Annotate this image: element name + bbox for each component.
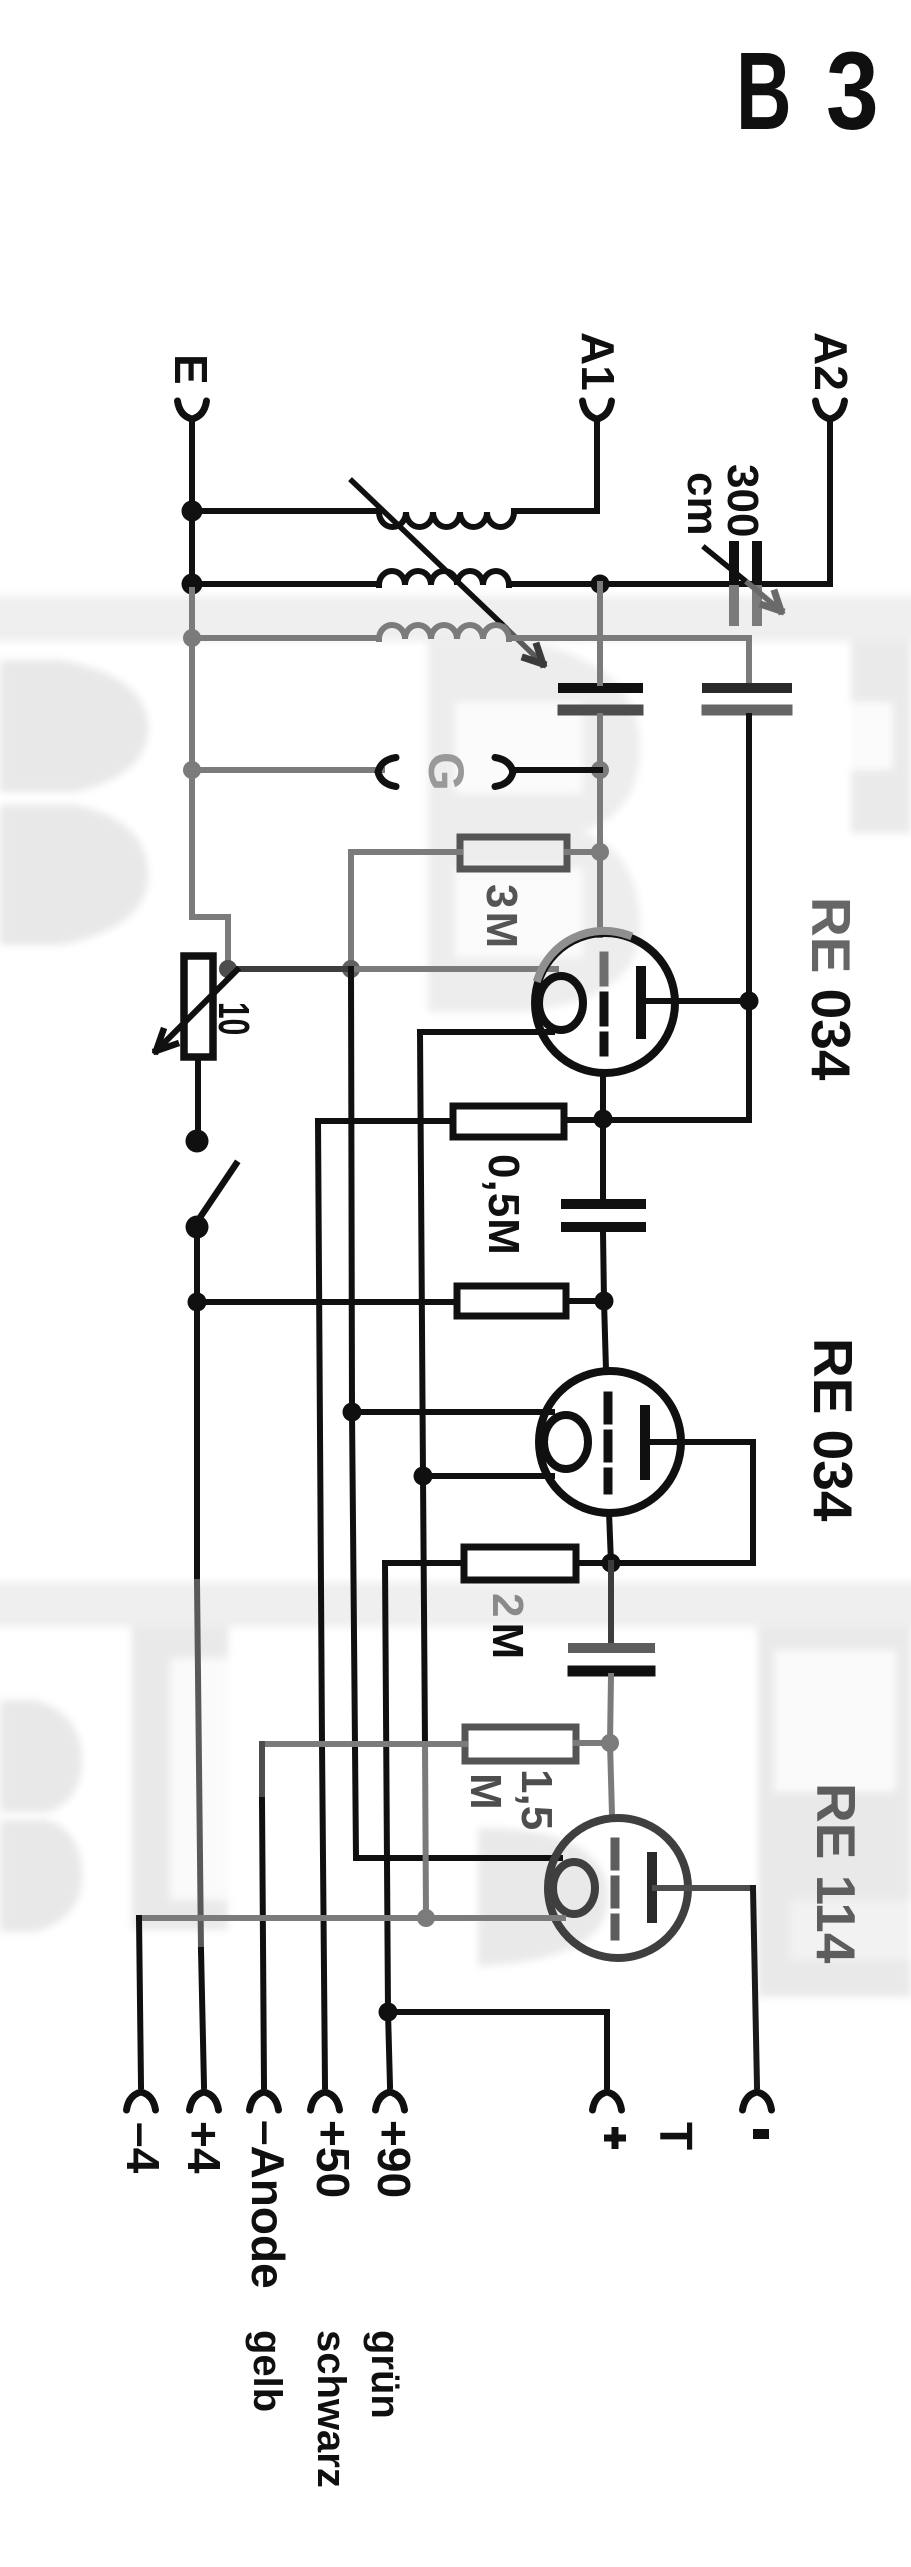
svg-text:A1: A1 (572, 332, 624, 391)
wire rheostat row dark segment (228, 966, 351, 972)
node E-Grow junction (183, 761, 201, 779)
svg-text:2M: 2M (483, 1593, 532, 1664)
wire row1 left segment (192, 508, 379, 514)
node +90 T junction (379, 2003, 398, 2022)
wire rheostat row gray segment to tube1 filament top (351, 966, 556, 972)
svg-text:grün: grün (363, 2330, 407, 2419)
svg-text:3: 3 (826, 29, 879, 152)
wire grid-leak row (197, 1299, 457, 1305)
svg-text:E: E (165, 354, 217, 385)
coil L1 (379, 512, 514, 527)
grid capacitor Cg top plate (563, 683, 638, 693)
watermark band 2 strip (0, 1582, 911, 1627)
wire V1 anode lead (646, 998, 749, 1004)
coil L3 (379, 625, 509, 639)
node 1,5M right junction (601, 1734, 619, 1752)
wire 1,5M right lead (576, 1740, 610, 1746)
svg-text:RE 034: RE 034 (800, 897, 862, 1081)
node grid-leak resistor right junction (595, 1292, 614, 1311)
wire V2 filament bottom lead (423, 1473, 552, 1479)
wire G row left (192, 767, 382, 773)
tube V2 grid dashes (604, 1396, 613, 1490)
terminal T minus (743, 2092, 772, 2110)
watermark band 1 strip (0, 596, 911, 641)
wire grid rail: cap to G row to 3M row (597, 716, 603, 935)
rheostat wiper arrow (156, 970, 237, 1051)
rheostat 10 body (184, 956, 213, 1057)
wire +50 rail down (318, 1121, 325, 2086)
wire 0,5M left lead to +50 rail (318, 1118, 453, 1124)
coil L2 (379, 571, 509, 585)
tube V2 envelope (539, 1371, 681, 1513)
wire V2 grid exit (609, 1512, 611, 1563)
wire row2 right segment (509, 581, 830, 587)
resistor grid-leak V2 body (457, 1286, 566, 1316)
node 3M junction (591, 843, 609, 861)
svg-text:T: T (650, 2122, 702, 2150)
wire V3 anode lead to T minus terminal (655, 1885, 753, 1891)
feedback capacitor Cr bottom plate (707, 705, 787, 716)
node E-row2 junction (182, 574, 203, 595)
svg-text:M: M (461, 1773, 510, 1810)
variable capacitor C 300cm plate 2 (752, 546, 762, 590)
terminal E (178, 401, 207, 419)
terminal +4 (190, 2092, 219, 2110)
coupling capacitor C2 bottom plate (566, 1222, 641, 1232)
svg-text:gelb: gelb (245, 2330, 289, 2412)
tube V1 anode bar (636, 971, 646, 1034)
wire T plus row (388, 2012, 607, 2086)
watermark band 2 letter fragment left (0, 1700, 82, 1812)
wire E rail gray middle (192, 590, 228, 962)
coupling arrow across coils (352, 481, 505, 627)
wire V3 grid entry (610, 1743, 612, 1815)
node V2 filament top junction (343, 1403, 362, 1422)
wire row1 right segment (514, 508, 597, 514)
wire -4 rail down (139, 1918, 141, 2086)
tube V2 anode bar (640, 1410, 650, 1475)
wire V1 grid exit to 0,5M junction (600, 1073, 606, 1200)
node V2 filament bottom junction (414, 1467, 433, 1486)
capacitor C3 bottom plate (573, 1666, 650, 1677)
tube V1 envelope (535, 933, 675, 1073)
wire C2 to grid-leak row (603, 1232, 604, 1301)
grid capacitor Cg bottom plate (563, 705, 638, 716)
wire row3 gray left segment (192, 635, 379, 641)
tube V1 envelope gray arc (538, 931, 628, 978)
wire -Anode rail down (259, 1744, 265, 1800)
terminal T plus (593, 2092, 622, 2110)
wire 3M right lead (567, 849, 600, 855)
wire 1,5M left lead to -Anode rail (262, 1741, 465, 1747)
wire A2 lead down to row2 (827, 422, 833, 584)
node filament-top rail / rheostat row junction (342, 960, 360, 978)
svg-text:schwarz: schwarz (309, 2330, 353, 2488)
label T plus (604, 2127, 626, 2149)
node anode1 junction (740, 992, 759, 1011)
wire +90 rail down (385, 1563, 390, 2086)
wire row2 left segment (192, 581, 379, 587)
node 2M right junction (602, 1554, 621, 1573)
node V3 filament bottom junction (417, 1909, 435, 1927)
variable capacitor C 300cm plate 1 (729, 546, 739, 590)
resistor 0,5M body (453, 1106, 564, 1137)
tube V3 envelope (548, 1818, 688, 1958)
terminal +90 (376, 2092, 405, 2110)
wire row3 gray right segment to feedback cap (509, 638, 749, 683)
svg-text:+90: +90 (368, 2120, 420, 2198)
watermark band 1 letter fragment left B (0, 660, 148, 792)
switch blade (199, 1164, 236, 1219)
terminal A1 (583, 401, 612, 419)
node G row junction (591, 761, 609, 779)
resistor 2M body (464, 1547, 576, 1580)
wire V3 filament bottom row to -4 corner (139, 1915, 563, 1921)
svg-text:–4: –4 (117, 2122, 169, 2174)
svg-text:10: 10 (210, 1002, 259, 1035)
watermark band 1 letter fragment right (851, 641, 911, 833)
feedback capacitor Cr top plate (707, 683, 787, 693)
jack G right (495, 758, 513, 787)
svg-text:+4: +4 (178, 2121, 230, 2174)
node switch lower contact (186, 1216, 209, 1239)
svg-text:+50: +50 (307, 2120, 359, 2198)
wire 2M right lead (576, 1560, 611, 1566)
wire right rail bottom corner to 0,5M junction (564, 1117, 749, 1123)
wire filament-top rail (351, 969, 560, 1858)
svg-text:G: G (418, 752, 474, 791)
svg-text:3M: 3M (477, 884, 526, 951)
terminal +50 (311, 2092, 340, 2110)
wire C3 to 1,5M junction (610, 1676, 611, 1743)
terminal -Anode (250, 2092, 279, 2110)
wire feedback cap down right rail (746, 716, 752, 1120)
watermark band 2 letter fragment center (478, 1828, 608, 1966)
coupling capacitor C2 top plate (566, 1199, 641, 1209)
wire grid cap to row2 (597, 584, 603, 683)
wire G row right (512, 767, 600, 773)
terminal -4 (127, 2092, 156, 2110)
node E-row1 junction (182, 501, 203, 522)
wire switch to grid-leak row (194, 1226, 200, 1302)
svg-text:cm: cm (678, 472, 727, 536)
wire E terminal lead (189, 422, 195, 590)
node rheostat top junction (219, 960, 237, 978)
svg-text:RE 114: RE 114 (805, 1783, 867, 1964)
wire E rail to bottom +4 terminal (194, 1302, 200, 1582)
node switch upper contact (186, 1130, 209, 1153)
capacitor C3 top plate (573, 1643, 650, 1653)
resistor 3M body (460, 837, 567, 869)
svg-text:B: B (736, 31, 792, 154)
watermark band 2 letter fragment bar (132, 1627, 228, 1930)
wire 2M junction down to C3 (608, 1563, 614, 1644)
wire V2 anode loop to 2M junction (611, 1442, 753, 1563)
wire grid-leak right lead (566, 1298, 604, 1304)
node grid-leak row junction (188, 1293, 207, 1312)
title B 3 (736, 29, 879, 153)
variable capacitor arrow (705, 548, 748, 583)
terminal A2 (816, 401, 845, 419)
wire 3M left lead down to filament rail (351, 852, 460, 966)
node 0,5M right junction (594, 1110, 613, 1129)
tube V2 filament (544, 1415, 588, 1469)
tube V1 grid dashes (600, 956, 609, 982)
wire V1 filament bottom lead (420, 1029, 552, 1035)
svg-text:A2: A2 (805, 332, 857, 391)
wire V2 grid entry (604, 1301, 606, 1370)
wire filament-bottom rail (420, 1032, 425, 1744)
node row2 grid-cap junction (591, 575, 610, 594)
svg-text:RE 034: RE 034 (802, 1338, 864, 1522)
jack G left (378, 758, 396, 787)
watermark band 1 letter fragment center B (428, 641, 640, 1012)
label T minus (753, 2129, 769, 2139)
wire rheostat bottom lead (195, 1057, 201, 1136)
tube V3 anode bar (647, 1857, 657, 1918)
svg-text:–Anode: –Anode (242, 2120, 294, 2289)
wire V2 filament top lead (352, 1409, 552, 1415)
node E-row3 junction (183, 629, 201, 647)
svg-text:0,5M: 0,5M (479, 1154, 528, 1256)
resistor 1,5M body (465, 1727, 576, 1761)
wire A1 lead down to row1 (594, 422, 600, 511)
tube V3 filament (553, 1862, 595, 1914)
tube V3 grid dashes (611, 1842, 620, 1936)
tube V1 filament (539, 976, 583, 1030)
watermark band 2 letter fragment right (758, 1627, 911, 1997)
wire 2M left lead to +90 rail (385, 1560, 464, 1566)
svg-text:1,5: 1,5 (512, 1769, 561, 1830)
